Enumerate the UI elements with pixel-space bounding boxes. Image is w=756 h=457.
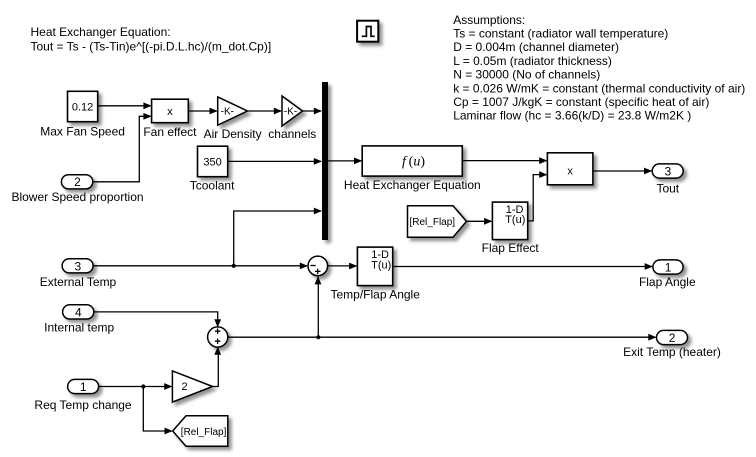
svg-text:1: 1 <box>80 380 87 394</box>
svg-text:Assumptions:: Assumptions: <box>453 13 525 27</box>
svg-text:2: 2 <box>182 381 188 393</box>
svg-text:L = 0.05m (radiator thickness): L = 0.05m (radiator thickness) <box>453 54 612 68</box>
svg-text:Tout = Ts - (Ts-Tin)e^[(-pi.D.: Tout = Ts - (Ts-Tin)e^[(-pi.D.L.hc)/(m_d… <box>31 40 272 54</box>
svg-text:[Rel_Flap]: [Rel_Flap] <box>410 217 456 228</box>
svg-text:D = 0.004m (channel diameter): D = 0.004m (channel diameter) <box>453 40 619 54</box>
svg-text:1: 1 <box>665 260 672 274</box>
svg-text:Flap Effect: Flap Effect <box>482 241 540 255</box>
svg-text:350: 350 <box>203 156 221 168</box>
svg-text:x: x <box>167 106 173 118</box>
svg-text:Air Density: Air Density <box>204 127 262 141</box>
svg-text:Exit Temp (heater): Exit Temp (heater) <box>623 345 721 359</box>
svg-text:Fan effect: Fan effect <box>143 125 197 139</box>
svg-text:Heat Exchanger Equation: Heat Exchanger Equation <box>344 178 481 192</box>
svg-text:Temp/Flap Angle: Temp/Flap Angle <box>331 288 421 302</box>
svg-text:Internal temp: Internal temp <box>44 320 114 334</box>
svg-text:f (u): f (u) <box>402 155 425 170</box>
svg-text:Heat Exchanger Equation:: Heat Exchanger Equation: <box>31 25 171 39</box>
svg-text:-K-: -K- <box>221 107 234 118</box>
svg-text:Blower Speed proportion: Blower Speed proportion <box>11 190 143 204</box>
svg-text:x: x <box>567 165 573 177</box>
svg-text:-K-: -K- <box>284 107 297 118</box>
svg-text:T(u): T(u) <box>371 260 391 272</box>
svg-text:channels: channels <box>268 127 316 141</box>
svg-text:2: 2 <box>74 175 81 189</box>
svg-text:Tcoolant: Tcoolant <box>190 179 235 193</box>
svg-text:Cp = 1007 J/kgK = constant (sp: Cp = 1007 J/kgK = constant (specific hea… <box>453 95 709 109</box>
svg-text:Ts = constant (radiator wall t: Ts = constant (radiator wall temperature… <box>453 27 668 41</box>
svg-text:External Temp: External Temp <box>40 275 117 289</box>
svg-text:2: 2 <box>669 331 676 345</box>
svg-text:3: 3 <box>664 164 671 178</box>
svg-text:3: 3 <box>74 259 81 273</box>
svg-text:T(u): T(u) <box>505 214 525 226</box>
svg-text:Tout: Tout <box>656 182 679 196</box>
svg-text:Flap Angle: Flap Angle <box>639 275 696 289</box>
svg-text:4: 4 <box>75 305 82 319</box>
svg-text:0.12: 0.12 <box>72 101 93 113</box>
svg-text:Max Fan Speed: Max Fan Speed <box>40 125 125 139</box>
svg-text:[Rel_Flap]: [Rel_Flap] <box>181 427 227 438</box>
svg-text:Req Temp change: Req Temp change <box>34 398 132 412</box>
svg-text:Laminar flow (hc = 3.66(k/D) =: Laminar flow (hc = 3.66(k/D) = 23.8 W/m2… <box>453 109 691 123</box>
svg-text:k = 0.026 W/mK = constant (the: k = 0.026 W/mK = constant (thermal condu… <box>453 81 745 95</box>
svg-text:N = 30000 (No of channels): N = 30000 (No of channels) <box>453 68 600 82</box>
